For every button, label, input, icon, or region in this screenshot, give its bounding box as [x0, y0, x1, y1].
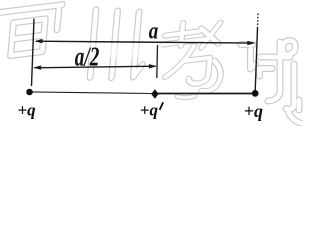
dimension line a/2 [35, 66, 156, 68]
charge dot middle (diamond) [151, 89, 158, 99]
arrowhead a left [35, 39, 43, 43]
watermark char CHUAN [90, 4, 148, 83]
dimension line a [36, 41, 254, 43]
arrowhead a/2 left [33, 65, 41, 69]
left extension line [32, 19, 35, 87]
right extension line (solid) [255, 28, 257, 92]
arrowhead a/2 right [149, 64, 157, 68]
main line right segment [155, 93, 255, 95]
watermark [0, 4, 302, 124]
watermark char KAO [158, 18, 226, 97]
svg-text:a/2: a/2 [75, 41, 100, 72]
svg-text:+q: +q [140, 101, 159, 120]
watermark char BAI [0, 5, 62, 58]
middle tick [156, 45, 159, 78]
watermark char SHI [241, 41, 302, 124]
arrowhead a right [247, 41, 255, 45]
main line left segment [30, 92, 153, 94]
scan fade over watermark mid-left [82, 44, 162, 58]
right extension line (dotted top) [257, 14, 260, 28]
watermark arc under main line [177, 96, 195, 98]
charge dot right [252, 90, 259, 97]
prime tick of q' [159, 102, 164, 110]
charge dot left [26, 89, 33, 96]
svg-text:a: a [149, 19, 159, 45]
svg-text:+q: +q [18, 100, 37, 119]
svg-text:+q: +q [244, 101, 263, 121]
